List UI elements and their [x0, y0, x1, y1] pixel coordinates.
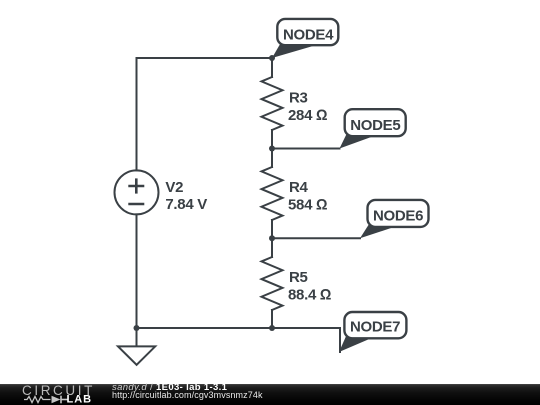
svg-text:R3: R3 — [289, 89, 308, 106]
svg-text:V2: V2 — [165, 179, 183, 196]
svg-text:NODE5: NODE5 — [350, 117, 400, 134]
svg-text:LAB: LAB — [67, 394, 93, 405]
svg-text:584 Ω: 584 Ω — [288, 197, 327, 214]
svg-text:7.84 V: 7.84 V — [165, 196, 207, 213]
svg-text:R4: R4 — [289, 179, 309, 196]
svg-text:NODE7: NODE7 — [350, 319, 400, 336]
svg-text:R5: R5 — [289, 269, 308, 286]
svg-text:88.4 Ω: 88.4 Ω — [288, 287, 331, 304]
svg-text:http://circuitlab.com/cgv3mvsn: http://circuitlab.com/cgv3mvsnmz74k — [112, 390, 263, 400]
svg-text:NODE6: NODE6 — [373, 207, 423, 224]
svg-text:284 Ω: 284 Ω — [288, 107, 327, 124]
svg-text:NODE4: NODE4 — [283, 27, 334, 44]
